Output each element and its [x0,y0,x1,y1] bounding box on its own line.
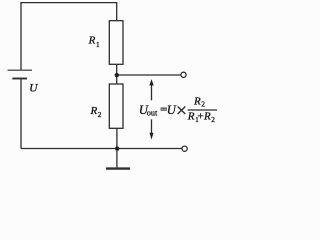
svg-text:out: out [147,108,158,117]
svg-text:1: 1 [96,40,100,49]
svg-text:R: R [193,96,201,108]
svg-text:2: 2 [98,110,102,119]
svg-text:U: U [167,103,177,117]
svg-text:+: + [197,111,203,123]
svg-text:R: R [90,105,98,117]
svg-text:R: R [88,35,96,47]
svg-text:R: R [203,111,211,123]
svg-text:2: 2 [201,100,205,109]
svg-text:2: 2 [211,115,215,124]
svg-text:U: U [29,83,38,95]
svg-text:R: R [187,111,195,123]
